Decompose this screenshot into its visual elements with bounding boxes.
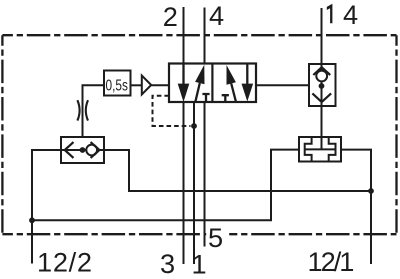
enclosure dash-dot border right	[395, 35, 397, 234]
svg-text:12/2: 12/2	[37, 246, 93, 277]
shuttle junction dot	[80, 147, 86, 153]
svg-text:12/1: 12/1	[308, 246, 354, 277]
svg-text:1: 1	[192, 249, 207, 279]
flow control right zigzag	[329, 137, 336, 162]
valve left cell blocked port 5	[202, 94, 209, 102]
timer box 0,5s	[104, 71, 131, 96]
wire valve out to check valve (right)	[256, 84, 309, 86]
wire timer chain: shuttle top to throttle to timer box	[83, 85, 105, 150]
wire shuttle left port to 12/2	[32, 150, 61, 264]
valve left cell arrow 2->3	[182, 64, 184, 86]
wire port 4 (top)	[204, 8, 206, 64]
junction dot 12/1	[368, 188, 374, 194]
svg-text:5: 5	[208, 222, 223, 253]
check valve ball	[316, 71, 327, 82]
svg-text:3: 3	[160, 248, 175, 279]
wire port 2 (top)	[183, 7, 185, 64]
wire port 3 (bottom)	[183, 102, 185, 264]
enclosure dash-dot border bottom	[2, 233, 396, 235]
pilot amplifier triangle	[142, 76, 151, 95]
wire shuttle right port down to mid bus to 12/1 node	[104, 150, 371, 191]
valve right cell diagonal arrow 1->2	[231, 83, 236, 102]
white gap in bottom border behind label 5	[206, 230, 229, 239]
valve main box 5/2	[169, 64, 256, 103]
throttle (restrictor) arcs	[77, 100, 88, 120]
wire timer to pilot amplifier triangle	[131, 84, 142, 86]
valve right cell arrow 4->5	[246, 64, 248, 86]
wire port 1 (bottom)	[193, 102, 195, 264]
label 14	[327, 4, 333, 24]
wire port 14 through check valve down to flow control	[321, 8, 323, 149]
check valve exhaust arrow	[312, 93, 331, 102]
enclosure dash-dot border top	[2, 34, 396, 36]
flow control middle bar	[305, 148, 336, 150]
valve divider	[211, 64, 213, 103]
svg-text:4: 4	[343, 0, 358, 30]
check valve junction dot	[319, 83, 325, 89]
dashed internal pilot line	[153, 96, 191, 126]
svg-text:4: 4	[209, 0, 224, 31]
shuttle valve box (left)	[61, 137, 104, 163]
wire lower bus: 12/2 junction to flow control left port	[32, 150, 299, 221]
shuttle right seat chevron	[91, 142, 100, 158]
junction dot 12/2	[29, 217, 35, 223]
shuttle internal line	[61, 149, 104, 151]
check valve box (top right, port 14)	[309, 64, 336, 106]
junction dot pilot dashed to port 1	[191, 123, 197, 129]
enclosure dash-dot border left	[1, 35, 3, 234]
flow control left zigzag	[305, 137, 312, 162]
wire flow control right port to 12/1	[341, 150, 371, 264]
wire triangle to valve pilot 12	[151, 84, 169, 86]
svg-text:0,5s: 0,5s	[106, 77, 128, 94]
shuttle ball	[86, 145, 97, 156]
wire port 5 (bottom)	[204, 102, 206, 247]
valve left cell diagonal arrow 1->4	[195, 83, 200, 102]
valve right cell blocked port 3	[222, 95, 229, 102]
svg-text:2: 2	[163, 1, 178, 32]
check valve seat chevron	[313, 67, 330, 75]
shuttle left open arrow	[65, 142, 74, 158]
flow control center stem	[321, 137, 323, 149]
flow control / volume box (bottom right)	[299, 137, 341, 162]
